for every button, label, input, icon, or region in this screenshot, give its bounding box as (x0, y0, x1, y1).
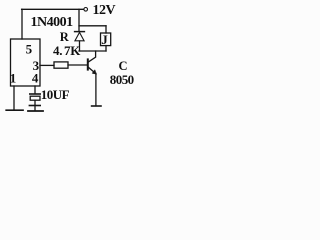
resistor R box (54, 62, 68, 68)
wire pin4 to capacitor (34, 86, 36, 93)
svg-text:1N4001: 1N4001 (31, 15, 74, 30)
svg-text:1: 1 (10, 70, 16, 85)
wire diode anode lead (79, 41, 81, 51)
wire pin1 down (13, 86, 15, 110)
svg-text:C: C (119, 59, 128, 73)
pin1 ground bar (6, 109, 23, 111)
wire relay top lead (105, 26, 107, 33)
wire capacitor lead (34, 100, 36, 105)
wire relay bottom lead (105, 46, 107, 51)
wire base (68, 64, 87, 66)
svg-text:10UF: 10UF (41, 87, 70, 102)
terminal +12V (84, 8, 88, 12)
svg-text:4: 4 (32, 70, 39, 85)
wire pin5 to top rail (21, 9, 23, 39)
IC U1 (timer) box (11, 39, 41, 86)
relay J box (101, 33, 111, 46)
svg-text:8050: 8050 (110, 72, 134, 87)
svg-text:12V: 12V (93, 3, 116, 18)
capacitor bottom bar (29, 105, 40, 107)
transistor Q base bar (87, 59, 89, 69)
wire top rail (22, 8, 84, 10)
capacitor ground bar (28, 110, 43, 112)
wire bottom branch diode-relay-collector (79, 50, 106, 52)
svg-text:R: R (60, 30, 70, 44)
diode 1N4001 cathode bar (75, 31, 85, 33)
svg-text:4.7K: 4.7K (53, 43, 81, 58)
svg-text:5: 5 (26, 41, 33, 56)
svg-text:J: J (101, 32, 108, 47)
transistor Q emitter with arrow (89, 67, 95, 72)
wire emitter lead down (95, 74, 97, 106)
diode 1N4001 triangle (75, 32, 84, 40)
wire pin3 to resistor (40, 64, 54, 66)
wire cap ground stub (34, 106, 36, 111)
capacitor C1 top plate (30, 93, 40, 95)
wire collector lead (89, 51, 96, 62)
wire 12V drop to diode (78, 9, 80, 31)
wire branch to relay top (79, 25, 106, 27)
emitter ground bar (92, 105, 101, 107)
capacitor C1 hollow plate (30, 96, 40, 100)
